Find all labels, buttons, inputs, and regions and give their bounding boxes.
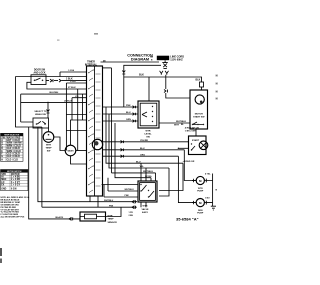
svg-text:BLK: BLK <box>139 74 144 77</box>
svg-text:2 + 4 RD: 2 + 4 RD <box>11 178 20 181</box>
svg-text:WTR: WTR <box>146 131 151 133</box>
svg-text:1 GRA: 1 GRA <box>68 69 75 72</box>
svg-text:WASH / RNS: WASH / RNS <box>7 136 21 139</box>
svg-text:ASSY: ASSY <box>142 211 148 214</box>
svg-text:SELECT TO: SELECT TO <box>34 111 47 113</box>
svg-text:PNK: PNK <box>125 195 130 197</box>
svg-text:6 GN: 6 GN <box>11 188 17 190</box>
svg-text:HOT / COLD: HOT / COLD <box>7 140 21 142</box>
svg-text:WTR: WTR <box>46 145 51 147</box>
svg-text:N: N <box>216 74 218 78</box>
svg-text:ALL SW SHOWN OFF POS: ALL SW SHOWN OFF POS <box>1 216 26 219</box>
svg-text:4 YEL: 4 YEL <box>205 172 211 175</box>
svg-text:1 + 5 GY: 1 + 5 GY <box>11 185 21 187</box>
svg-text:LT BLU: LT BLU <box>64 101 72 103</box>
svg-text:WTR: WTR <box>198 188 203 190</box>
svg-text:WHT/BLU: WHT/BLU <box>125 189 135 191</box>
svg-text:LEVEL: LEVEL <box>144 134 152 136</box>
svg-text:WRM / COLD: WRM / COLD <box>7 151 22 153</box>
svg-text:N: N <box>216 97 218 101</box>
svg-text:2 BU: 2 BU <box>129 215 134 217</box>
svg-text:1 BK 2 WH: 1 BK 2 WH <box>185 131 196 133</box>
svg-text:PUMP: PUMP <box>197 213 204 215</box>
svg-text:WTR: WTR <box>143 206 148 208</box>
svg-text:GND: GND <box>1 188 6 190</box>
svg-text:DOOR SW: DOOR SW <box>34 69 46 71</box>
svg-text:1 PK: 1 PK <box>129 212 134 214</box>
svg-text:BLU: BLU <box>140 148 145 150</box>
svg-text:PNK: PNK <box>126 105 131 107</box>
svg-text:115V 60HZ: 115V 60HZ <box>170 59 183 62</box>
svg-text:VIO: VIO <box>75 96 79 98</box>
svg-text:SPD: SPD <box>1 174 6 176</box>
svg-text:2 BLK: 2 BLK <box>66 78 73 80</box>
svg-text:START SW: START SW <box>193 116 205 119</box>
svg-text:YEL: YEL <box>140 166 145 168</box>
svg-text:3 RED: 3 RED <box>70 81 76 83</box>
svg-text:BLU: BLU <box>126 112 131 114</box>
svg-text:CLD / COLD: CLD / COLD <box>7 156 20 158</box>
svg-text:DRN: DRN <box>198 210 203 212</box>
svg-text:4 RD CAP OR: 4 RD CAP OR <box>185 127 199 130</box>
svg-text:WASH SW: WASH SW <box>35 113 47 116</box>
svg-text:35-6584 "A": 35-6584 "A" <box>176 217 199 222</box>
svg-text:CLD / CLD: CLD / CLD <box>7 159 19 161</box>
svg-text:N: N <box>216 82 218 86</box>
svg-text:SENSOR: SENSOR <box>108 222 118 224</box>
svg-text:WHT: WHT <box>174 125 180 127</box>
svg-text:WHT/BLU: WHT/BLU <box>104 200 114 202</box>
svg-text:2T BLK: 2T BLK <box>68 87 76 89</box>
svg-text:WHT/BLU: WHT/BLU <box>143 171 154 173</box>
svg-text:WRM / WARM: WRM / WARM <box>7 142 22 145</box>
svg-text:N: N <box>216 90 218 94</box>
svg-text:CLD / COLD: CLD / COLD <box>7 154 20 156</box>
svg-text:LO: LO <box>1 182 4 184</box>
svg-text:HI: HI <box>1 177 4 179</box>
svg-text:MED: MED <box>1 179 6 181</box>
svg-text:AND LOCK: AND LOCK <box>33 71 45 74</box>
svg-text:MOTOR SWITCH: MOTOR SWITCH <box>7 171 22 173</box>
svg-text:3 + 4 VT: 3 + 4 VT <box>11 181 20 184</box>
svg-text:WASH: WASH <box>68 150 75 153</box>
svg-text:START: START <box>192 139 200 142</box>
svg-text:BLACK: BLACK <box>56 216 64 219</box>
svg-text:BLU: BLU <box>136 161 141 163</box>
svg-text:PNK: PNK <box>109 206 114 208</box>
svg-text:PUMP: PUMP <box>197 191 204 193</box>
svg-text:TEMP: TEMP <box>45 148 52 150</box>
svg-text:1 BU: 1 BU <box>205 197 210 199</box>
svg-text:WRM / COLD: WRM / COLD <box>7 145 22 147</box>
svg-text:G: G <box>1 156 3 158</box>
svg-text:CLD / COLD: CLD / COLD <box>7 148 20 150</box>
svg-text:WHT/BLK: WHT/BLK <box>176 121 187 123</box>
svg-text:MOTOR: MOTOR <box>195 114 204 116</box>
svg-text:GRN: GRN <box>126 119 131 121</box>
svg-text:TEMP: TEMP <box>108 219 115 221</box>
svg-text:MOTOR: MOTOR <box>11 174 20 176</box>
svg-text:BLU/WH: BLU/WH <box>50 92 59 94</box>
svg-text:EX: EX <box>1 185 5 187</box>
svg-text:YEL/RD: YEL/RD <box>140 140 148 142</box>
svg-text:DIAGRAM: DIAGRAM <box>131 57 149 61</box>
svg-text:1 + 4 BU: 1 + 4 BU <box>11 176 20 179</box>
svg-text:BLK: BLK <box>196 79 201 82</box>
svg-text:ORG: ORG <box>140 154 145 156</box>
svg-text:VALVE: VALVE <box>142 208 150 211</box>
